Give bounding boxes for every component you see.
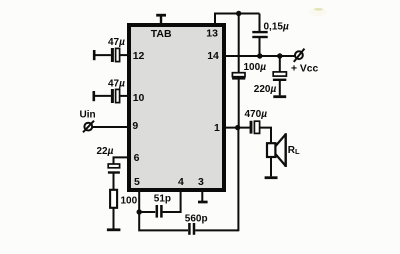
junction node top [236,11,241,16]
junction node C6/rail [257,53,262,58]
svg-text:4: 4 [178,176,184,188]
svg-text:Uin: Uin [80,109,96,120]
wire feedback riser pin1 to bottom [237,128,239,232]
wire R1 to ground [113,208,115,229]
svg-text:14: 14 [207,50,219,62]
wire C5 to feedback riser [195,229,238,231]
svg-text:RL: RL [288,145,300,156]
ground below C8 [273,95,286,98]
junction node pin1/feedback [235,125,240,130]
svg-text:9: 9 [132,120,138,132]
wire junction to C4 [139,211,155,213]
TAB top bar terminal [156,15,166,24]
svg-text:5: 5 [134,176,140,188]
wire C1 to pin 12 [120,54,130,56]
svg-text:560p: 560p [185,213,208,224]
capacitor C5 560p [189,223,194,235]
wire C8 to ground [279,81,281,96]
wire rail down to C8 [279,56,281,72]
svg-text:470µ: 470µ [245,109,268,120]
svg-text:47µ: 47µ [108,37,125,48]
capacitor C1 47u [112,48,119,62]
ground below R1 [107,228,121,231]
svg-text:3: 3 [198,176,204,188]
IC U1 body [129,25,224,190]
capacitor C9 470u [251,121,260,134]
junction node pin5 [137,209,142,214]
svg-text:220µ: 220µ [254,84,277,95]
svg-text:6: 6 [134,152,140,164]
ground below pin 3 [198,201,208,204]
wire pin 13 up and right [215,14,260,25]
svg-text:1: 1 [214,122,220,134]
wire C6 to pin 14 rail [259,38,261,56]
wire pin 5 down [138,190,140,212]
wire C9 to speaker [260,128,271,144]
wire down to C6 [259,14,261,32]
svg-text:100µ: 100µ [244,62,267,73]
wire C7 down to pin1 junction [238,80,240,128]
capacitor C3 22u [108,164,120,173]
svg-text:10: 10 [133,92,145,104]
svg-text:12: 12 [133,50,145,62]
wire junction down and right to C5 [139,212,188,230]
ground below speaker [265,176,278,179]
svg-text:TAB: TAB [151,28,172,40]
input terminal pin12 [93,50,96,60]
wire pin 14 Vcc rail [224,55,295,57]
wire pin 3 down [201,190,203,201]
scan smudge [309,8,327,16]
wire C3 to R1 [113,174,115,190]
capacitor C6 0,15u [252,32,267,37]
svg-text:47µ: 47µ [108,78,125,89]
wire pin 1 out [224,127,250,129]
wire terminal to C2 [94,95,111,97]
wire C4 to pin 4 [163,190,181,212]
wire speaker to ground [270,157,272,176]
capacitor C4 51p [157,205,162,218]
terminal +Vcc [294,49,305,62]
speaker RL [267,133,286,167]
wire C2 to pin 10 [120,95,130,97]
wire terminal to C1 [94,54,111,56]
resistor R1 100 [110,190,117,208]
junction node C8/rail [277,53,282,58]
capacitor C2 47u [112,89,119,103]
input terminal pin10 [93,91,96,101]
svg-text:51p: 51p [154,194,171,205]
wire top junction down to C7 [238,14,240,73]
input terminal Uin [83,121,94,133]
svg-text:+ Vcc: + Vcc [291,64,318,75]
capacitor C8 220u [273,72,287,80]
wire Uin to pin 9 [92,126,130,128]
capacitor C7 100u [232,73,245,79]
wire pin 6 to C3 [114,157,131,164]
svg-text:100: 100 [121,195,138,206]
svg-text:13: 13 [206,27,218,39]
svg-text:22µ: 22µ [97,146,114,157]
